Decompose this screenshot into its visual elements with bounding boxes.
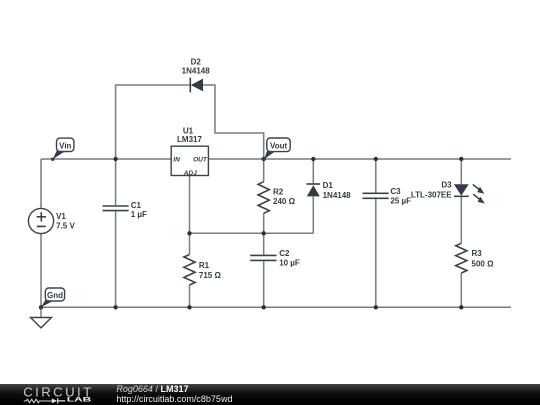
resistor R1 (184, 255, 195, 285)
svg-text:V1: V1 (56, 212, 66, 221)
wire C3 branch (375, 159, 377, 307)
svg-text:ADJ: ADJ (183, 170, 197, 177)
wire D3-R3 branch (460, 159, 462, 307)
wire V1 branch (40, 159, 42, 307)
resistor R2 (258, 182, 269, 214)
node junction dots (39, 157, 464, 310)
svg-text:D1: D1 (323, 181, 334, 190)
wire R1 leads (189, 233, 191, 307)
regulator U1 LM317 box (171, 146, 208, 175)
svg-text:Rog0664 / LM317: Rog0664 / LM317 (116, 384, 188, 394)
wire C2 branch (263, 233, 265, 307)
node Gnd tag (39, 288, 64, 309)
svg-text:LAB: LAB (67, 395, 92, 402)
wire D2 return to Vout node (203, 85, 264, 159)
node Vout tag (262, 138, 290, 161)
node Vin tag (51, 138, 74, 161)
svg-text:1N4148: 1N4148 (182, 66, 211, 75)
svg-text:LM317: LM317 (177, 135, 202, 144)
svg-text:LTL-307EE: LTL-307EE (411, 190, 452, 199)
wire D2 loop left/top (116, 85, 190, 159)
svg-text:R2: R2 (273, 188, 284, 197)
svg-text:OUT: OUT (193, 156, 208, 163)
svg-text:R1: R1 (199, 261, 210, 270)
svg-text:25 µF: 25 µF (390, 196, 411, 205)
wire ground stem (40, 307, 42, 317)
resistor R3 (456, 243, 467, 273)
wire ADJ pin down (189, 176, 191, 234)
svg-text:500 Ω: 500 Ω (472, 259, 495, 268)
wire D1 branch (312, 159, 314, 233)
capacitor C3 (363, 193, 389, 198)
diode D2 (190, 78, 203, 93)
svg-text:C2: C2 (279, 249, 290, 258)
svg-text:715 Ω: 715 Ω (199, 271, 222, 280)
svg-text:240 Ω: 240 Ω (273, 197, 296, 206)
svg-text:1N4148: 1N4148 (323, 191, 352, 200)
CircuitLab logo (23, 384, 92, 403)
svg-text:C3: C3 (390, 187, 401, 196)
svg-text:Gnd: Gnd (47, 291, 63, 300)
svg-text:R3: R3 (472, 249, 483, 258)
svg-text:http://circuitlab.com/c8b75wd: http://circuitlab.com/c8b75wd (116, 394, 232, 404)
wire bottom ground rail (41, 306, 511, 308)
wire R2 leads (263, 159, 265, 233)
capacitor C1 (103, 206, 129, 211)
svg-text:C1: C1 (131, 201, 142, 210)
svg-text:10 µF: 10 µF (279, 258, 300, 267)
svg-text:D2: D2 (191, 58, 202, 67)
svg-text:D3: D3 (441, 180, 452, 189)
svg-text:7.5 V: 7.5 V (56, 222, 75, 231)
svg-text:1 µF: 1 µF (131, 210, 147, 219)
wire C1 branch (115, 159, 117, 307)
svg-text:IN: IN (173, 156, 180, 163)
diode D1 (306, 184, 320, 196)
wire top rail Vin-Vout net (41, 158, 511, 160)
capacitor C2 (250, 255, 276, 260)
svg-text:Vout: Vout (270, 142, 288, 151)
voltage source V1 (28, 208, 53, 233)
ground (31, 318, 52, 328)
svg-text:Vin: Vin (59, 142, 71, 151)
LED D3 (454, 184, 485, 203)
wire ADJ rail (190, 232, 314, 234)
